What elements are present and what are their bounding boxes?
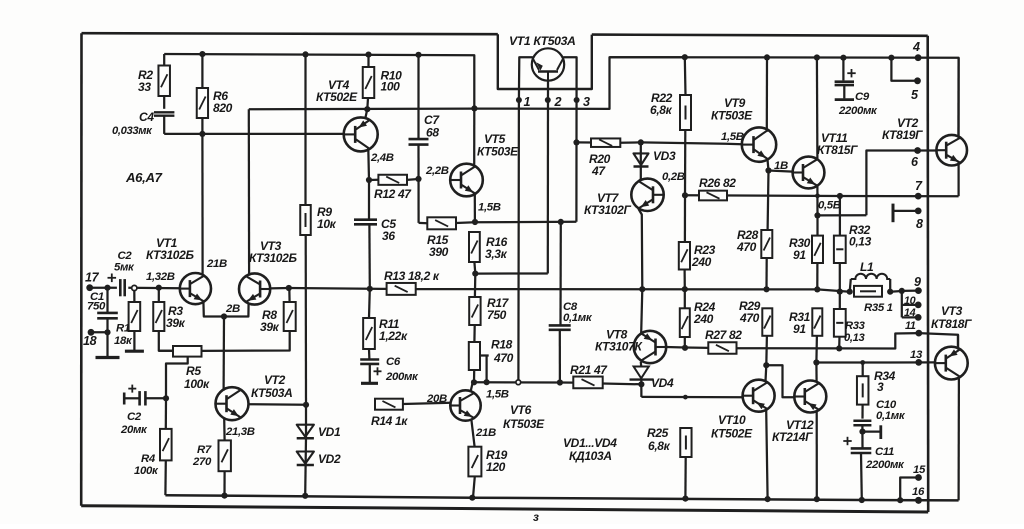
wire VT8 emitter bus y348 <box>682 333 919 351</box>
svg-text:470: 470 <box>739 311 760 325</box>
svg-text:5мк: 5мк <box>114 262 135 274</box>
transistor VT2 KT503A <box>216 373 307 440</box>
svg-text:39к: 39к <box>260 320 280 334</box>
node pins 1 2 3 <box>516 95 590 109</box>
resistor R18 with tap <box>469 325 514 382</box>
transistor VT5 <box>450 109 519 223</box>
svg-text:240: 240 <box>693 312 714 326</box>
resistor R23 <box>679 195 716 289</box>
wire C4 node to VT4 base <box>164 131 343 137</box>
terminal 8 <box>893 204 923 231</box>
svg-text:100к: 100к <box>184 377 210 391</box>
diode VD1 <box>297 405 341 439</box>
svg-text:17: 17 <box>85 271 100 285</box>
wire top sub-rail <box>164 54 474 108</box>
terminal 17 <box>85 271 100 292</box>
svg-text:3: 3 <box>877 380 884 394</box>
svg-text:18: 18 <box>83 334 97 348</box>
resistor R24 <box>680 289 716 348</box>
terminal 9 <box>914 275 922 294</box>
node output terminal group <box>899 288 919 318</box>
capacitor C9 <box>835 58 878 117</box>
svg-text:2: 2 <box>554 95 562 109</box>
svg-text:16: 16 <box>912 486 925 498</box>
svg-text:КТ815Г: КТ815Г <box>817 143 858 157</box>
terminal 18 <box>83 329 111 348</box>
transistor VT3 KT818 <box>931 304 972 500</box>
svg-text:1,32В: 1,32В <box>146 271 175 283</box>
svg-text:820: 820 <box>213 101 233 115</box>
svg-text:3,3к: 3,3к <box>485 247 508 261</box>
terminal 16 <box>912 486 925 504</box>
capacitor C7 <box>409 55 441 223</box>
svg-text:8: 8 <box>916 217 923 231</box>
svg-text:R13 18,2 к: R13 18,2 к <box>384 269 440 283</box>
border frame <box>81 33 928 512</box>
transistor VT11 <box>793 58 859 216</box>
capacitor C5 <box>354 180 396 289</box>
svg-text:10: 10 <box>904 295 916 307</box>
resistor R4 <box>134 398 172 495</box>
resistor R9 <box>300 54 336 404</box>
node bias to diodes <box>303 402 309 408</box>
svg-text:11: 11 <box>905 320 916 332</box>
resistor R17 <box>469 274 509 325</box>
capacitor C4 <box>112 110 174 137</box>
svg-text:91: 91 <box>793 322 806 336</box>
svg-text:КТ818Г: КТ818Г <box>931 317 972 331</box>
resistor R33 <box>834 309 866 348</box>
wire bottom bus <box>165 493 958 504</box>
svg-text:91: 91 <box>793 248 806 262</box>
wire VT4/VT5 collector feed y109 <box>249 57 685 112</box>
svg-text:VT1 КТ503А: VT1 КТ503А <box>509 34 575 48</box>
wire feedback-output y289 <box>289 286 850 295</box>
svg-text:R25: R25 <box>647 426 669 440</box>
svg-text:36: 36 <box>382 229 395 243</box>
terminal 10 <box>904 295 922 308</box>
diode VD3 <box>634 142 676 179</box>
svg-text:0,1мк: 0,1мк <box>563 312 593 324</box>
terminal 4 <box>912 40 921 61</box>
svg-text:R12 47: R12 47 <box>374 187 412 201</box>
resistor R8 <box>202 288 296 351</box>
wire main +rail <box>610 57 959 139</box>
resistor R13 <box>384 269 440 295</box>
svg-text:21,3В: 21,3В <box>225 426 255 438</box>
transistor VT4 <box>316 78 378 180</box>
svg-text:R5: R5 <box>186 364 201 378</box>
svg-text:20мк: 20мк <box>120 424 148 436</box>
inductor L1 <box>850 260 891 292</box>
svg-text:33: 33 <box>138 80 151 94</box>
resistor R3 <box>153 288 185 351</box>
svg-text:R35 1: R35 1 <box>864 302 893 314</box>
resistor R31 <box>789 308 822 362</box>
svg-text:2200мк: 2200мк <box>865 459 905 471</box>
svg-text:R26 82: R26 82 <box>699 176 736 190</box>
resistor R19 <box>468 447 507 498</box>
svg-text:з: з <box>533 511 539 524</box>
wire VT12 base jog <box>763 362 794 397</box>
svg-text:9: 9 <box>914 275 921 289</box>
resistor R12 <box>366 175 422 201</box>
svg-text:4: 4 <box>912 40 920 54</box>
svg-text:470: 470 <box>493 351 514 365</box>
svg-text:2200мк: 2200мк <box>838 105 878 117</box>
svg-text:R21 47: R21 47 <box>570 363 608 377</box>
svg-text:68: 68 <box>426 126 439 140</box>
node 2B emitters <box>221 303 240 391</box>
svg-text:L1: L1 <box>860 260 874 274</box>
svg-text:750: 750 <box>87 301 106 313</box>
svg-text:КТ503Е: КТ503Е <box>711 109 753 123</box>
svg-text:1,5В: 1,5В <box>721 131 744 143</box>
terminal 11 <box>905 320 922 337</box>
svg-text:270: 270 <box>192 456 212 468</box>
svg-text:390: 390 <box>429 245 449 259</box>
resistor R25 <box>647 426 692 499</box>
svg-text:КТ502Е: КТ502Е <box>711 427 753 441</box>
resistor R10 <box>363 55 402 110</box>
capacitor C8 <box>549 222 593 383</box>
svg-text:КТ3102Г: КТ3102Г <box>584 203 631 217</box>
svg-text:1В: 1В <box>774 160 788 172</box>
svg-text:0,13: 0,13 <box>849 235 872 249</box>
svg-text:VT2: VT2 <box>264 373 286 387</box>
transistor VT9 <box>711 57 776 170</box>
wire VT10 base feed <box>641 395 742 400</box>
svg-text:2В: 2В <box>225 303 240 315</box>
svg-text:0,033мк: 0,033мк <box>112 125 153 137</box>
svg-text:14: 14 <box>904 307 916 319</box>
resistor R30 <box>789 215 823 289</box>
transistor VT1 KT503A top <box>509 34 575 81</box>
svg-text:15: 15 <box>913 464 926 476</box>
svg-text:С11: С11 <box>875 446 894 458</box>
svg-text:0,1мк: 0,1мк <box>876 410 906 422</box>
transistor VT7 <box>584 179 664 290</box>
node sub-rail junctions <box>199 51 421 58</box>
svg-text:R33: R33 <box>845 320 866 332</box>
wire VT2 base link <box>866 151 936 216</box>
svg-text:С4: С4 <box>139 110 154 124</box>
capacitor C11 <box>843 437 905 500</box>
svg-text:47: 47 <box>591 164 606 178</box>
resistor R7 <box>192 440 231 495</box>
wire R32 top link y215 <box>814 196 866 236</box>
resistor R21 <box>570 363 641 388</box>
resistor R34 <box>857 363 896 419</box>
wire VT3 base to R8 <box>270 285 292 291</box>
resistor R2 <box>138 54 170 109</box>
svg-text:КТ502Е: КТ502Е <box>316 90 358 104</box>
svg-text:КД103А: КД103А <box>569 449 612 463</box>
svg-text:2,4В: 2,4В <box>370 152 394 164</box>
resistor R22 <box>650 57 691 195</box>
svg-text:КТ819Г: КТ819Г <box>882 128 923 142</box>
svg-text:R1: R1 <box>116 323 130 335</box>
svg-text:6,8к: 6,8к <box>650 103 673 117</box>
svg-text:КТ214Г: КТ214Г <box>772 430 813 444</box>
wire top transistor legs <box>518 57 576 380</box>
svg-text:VD1...VD4: VD1...VD4 <box>563 436 617 450</box>
transistor VT2 KT819 <box>882 58 967 197</box>
svg-text:VD1: VD1 <box>318 425 341 439</box>
wire input <box>90 285 180 291</box>
svg-text:КТ3102Б: КТ3102Б <box>249 251 297 265</box>
transistor VT12 <box>772 359 826 499</box>
svg-text:VD3: VD3 <box>653 149 676 163</box>
capacitor C10 <box>853 399 905 448</box>
svg-text:240: 240 <box>691 255 712 269</box>
svg-text:1,5В: 1,5В <box>486 389 509 401</box>
svg-text:750: 750 <box>487 308 507 322</box>
terminal 6 <box>911 147 921 169</box>
resistor R20 <box>573 138 640 178</box>
svg-text:470: 470 <box>736 240 757 254</box>
transistor VT1 <box>146 134 224 317</box>
resistor R16 <box>469 232 508 274</box>
svg-text:18к: 18к <box>114 335 133 347</box>
resistor R15 <box>419 217 475 259</box>
resistor R14 <box>371 399 451 428</box>
svg-text:13: 13 <box>910 349 923 361</box>
resistor R5 trimmer <box>159 346 210 398</box>
svg-text:1,22к: 1,22к <box>379 329 408 343</box>
resistor R35 <box>847 286 902 314</box>
svg-text:R18: R18 <box>491 338 513 352</box>
svg-text:21В: 21В <box>206 258 227 270</box>
svg-text:R4: R4 <box>141 453 156 465</box>
svg-text:0,5В: 0,5В <box>818 200 841 212</box>
svg-text:VD2: VD2 <box>318 452 341 466</box>
svg-text:С2: С2 <box>127 411 142 423</box>
wire output to VT3 emitter <box>919 333 958 349</box>
wire VT6 collector node y380 <box>471 379 573 386</box>
svg-text:VT6: VT6 <box>510 403 532 417</box>
terminal 5 <box>891 58 920 102</box>
resistor R26 <box>699 176 736 200</box>
terminal 15 <box>900 464 926 500</box>
label VD1...VD4 <box>563 436 617 463</box>
capacitor C2a input 5мк <box>108 250 136 296</box>
svg-text:1: 1 <box>524 95 531 109</box>
wire VT5 emitter node y222 <box>472 219 577 225</box>
wire lower driver bus y362 <box>816 360 935 365</box>
svg-text:А6,А7: А6,А7 <box>125 170 163 185</box>
diode VD4 <box>630 367 674 398</box>
resistor R6 <box>197 54 233 134</box>
wire driver base bus y196 <box>682 192 959 199</box>
resistor R1 <box>114 291 144 352</box>
svg-text:VD4: VD4 <box>651 376 674 390</box>
transistor VT10 <box>711 365 775 499</box>
svg-text:R14 1к: R14 1к <box>371 414 408 428</box>
svg-text:0,13: 0,13 <box>844 332 866 344</box>
svg-text:3: 3 <box>583 95 590 109</box>
svg-text:КТ503Е: КТ503Е <box>503 417 545 431</box>
resistor R29 <box>739 299 772 365</box>
transistor VT8 <box>595 289 685 366</box>
node rail junctions <box>682 54 895 61</box>
resistor R32 <box>834 223 872 309</box>
svg-text:VT10: VT10 <box>718 413 746 427</box>
capacitor C6 <box>360 349 419 383</box>
svg-text:100: 100 <box>381 80 401 94</box>
svg-text:С9: С9 <box>855 91 870 103</box>
svg-text:200мк: 200мк <box>385 371 419 383</box>
terminal 14 <box>904 307 922 321</box>
wire pin2 feedback y273 <box>472 271 548 277</box>
svg-text:2,2В: 2,2В <box>425 165 449 177</box>
svg-text:КТ3102Б: КТ3102Б <box>146 248 194 262</box>
svg-text:0,2В: 0,2В <box>662 171 685 183</box>
wire VT9 emitter to VT11 base <box>765 160 792 230</box>
terminal 13 <box>910 349 923 366</box>
svg-text:КТ503Е: КТ503Е <box>477 145 519 159</box>
svg-text:39к: 39к <box>166 316 186 330</box>
terminal 7 <box>915 179 923 200</box>
svg-text:20В: 20В <box>426 393 447 405</box>
resistor R11 <box>363 289 408 349</box>
svg-text:R27 82: R27 82 <box>705 328 742 342</box>
svg-text:6,8к: 6,8к <box>648 439 671 453</box>
svg-text:VT3: VT3 <box>941 304 963 318</box>
svg-text:R7: R7 <box>197 444 212 456</box>
svg-text:КТ3107К: КТ3107К <box>595 340 643 354</box>
svg-text:С6: С6 <box>386 356 401 368</box>
svg-text:1,5В: 1,5В <box>478 202 501 214</box>
svg-text:КТ503А: КТ503А <box>251 386 292 400</box>
resistor R27 <box>705 328 742 354</box>
svg-text:120: 120 <box>486 460 506 474</box>
svg-text:10к: 10к <box>317 217 337 231</box>
svg-text:С2: С2 <box>118 250 133 262</box>
svg-text:21В: 21В <box>475 427 496 439</box>
diode VD2 <box>297 437 341 495</box>
svg-text:100к: 100к <box>134 465 159 477</box>
transistor VT3 <box>224 109 297 316</box>
capacitor C1 <box>87 288 120 358</box>
wire VD3 node to VT9 base <box>638 139 742 145</box>
capacitor C2 20мк <box>120 385 169 436</box>
resistor R28 <box>736 228 772 289</box>
transistor VT6 <box>450 383 545 447</box>
